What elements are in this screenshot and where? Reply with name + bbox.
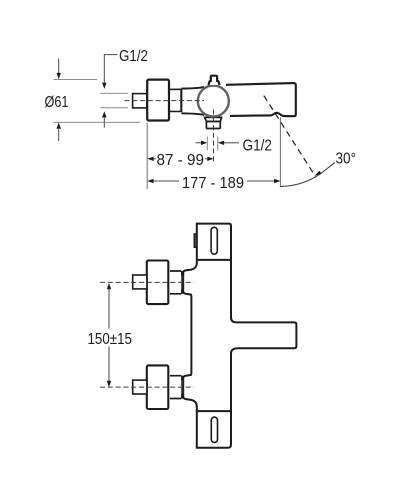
outlet nut (G1/2 shower connection) (206, 122, 220, 129)
dimension 150+/-15 vertical line (107, 283, 111, 289)
tick: outlet nut left extension (206, 137, 208, 151)
svg-text:150±15: 150±15 (88, 331, 133, 348)
tick: pipe top extension (100, 92, 128, 94)
top inlet pipe (plan) (133, 275, 147, 289)
wire: horizontal centerline of inlet (dashed, top view) (125, 100, 205, 102)
svg-text:87 - 99: 87 - 99 (157, 152, 205, 169)
dashed 30-degree swivel line (264, 96, 316, 177)
top knob adapter (170, 271, 182, 294)
notch on top handle block (194, 234, 197, 247)
top knob nut (181, 271, 183, 294)
extension line from wall face down (146, 123, 148, 189)
thermostat knob circle (198, 86, 229, 117)
tick: pipe bottom extension (100, 107, 128, 109)
svg-text:G1/2: G1/2 (119, 48, 148, 65)
svg-text:177 - 189: 177 - 189 (182, 175, 244, 192)
top handle block bottom edge (197, 259, 231, 261)
bottom knob adapter (170, 376, 182, 399)
bottom inlet pipe (plan) (133, 380, 147, 394)
arrowhead down to pipe top (102, 83, 106, 89)
extension line top of escutcheon (54, 78, 97, 80)
node: spout outlet vertical extension line (279, 117, 281, 187)
svg-text:Ø61: Ø61 (45, 94, 69, 111)
30-degree arc (280, 163, 334, 187)
top knob escutcheon (147, 261, 169, 305)
diverter knob on top of circle (208, 76, 219, 85)
bottom handle block top edge (197, 410, 231, 412)
dimension G1/2 top-left leader (104, 55, 117, 83)
wire: top knob centerline (dashed, plan view) (100, 281, 194, 283)
bottom knob nut (181, 376, 183, 399)
neck between escutcheon and body (169, 89, 181, 111)
tick: outlet nut right extension (217, 137, 219, 151)
oval slot in top handle (211, 227, 217, 254)
valve body (side view) (181, 87, 204, 115)
arrowhead up to pipe bottom (102, 111, 106, 117)
bottom knob escutcheon (147, 365, 169, 409)
dimension 87-99 (147, 157, 153, 161)
dimension G1/2 outlet: left arrow (196, 142, 203, 144)
dimension 177-189 (147, 179, 153, 183)
dimension D61 vertical line bottom part (57, 122, 61, 128)
faucet body silhouette (plan view) (183, 224, 296, 448)
svg-text:30°: 30° (336, 150, 357, 167)
oval slot in bottom handle (211, 417, 217, 442)
svg-text:G1/2: G1/2 (243, 137, 273, 154)
outlet collar under body (205, 117, 222, 121)
wall escutcheon block (side view) (147, 80, 169, 121)
wire: outlet vertical centerline (dashed, top view) (213, 110, 215, 164)
dimension D61 vertical line top part (58, 59, 60, 74)
arrow right side pointing left (218, 141, 224, 145)
arrowhead on 30-degree arc (315, 171, 322, 176)
spout (side view) (226, 83, 296, 116)
extension line bottom of escutcheon (54, 121, 141, 123)
wire: bottom knob centerline (dashed, plan view) (100, 386, 194, 388)
inlet pipe (side view) (133, 94, 147, 108)
